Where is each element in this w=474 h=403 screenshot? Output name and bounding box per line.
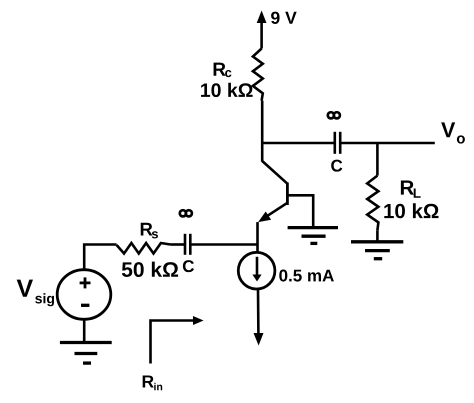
label Rin: [143, 375, 163, 390]
label 9 V: [271, 12, 297, 24]
voltage source Vsig: [57, 270, 111, 320]
value label 0.5 mA: [279, 270, 334, 282]
arrow Rin (input resistance): [151, 316, 204, 364]
wire input cap to emitter node: [190, 243, 257, 246]
label Rc: [214, 63, 232, 78]
infinity label (output cap): [328, 112, 340, 118]
value label 50 kOhm: [122, 262, 178, 277]
capacitor C (output coupling): [335, 132, 340, 154]
label C (output cap): [331, 160, 342, 172]
transistor Q1 emitter with arrow: [258, 203, 287, 222]
wire collector column: [261, 101, 264, 162]
wire base to ground: [287, 195, 313, 227]
label C (input cap): [183, 260, 194, 272]
wire input from Vsig to Rs: [84, 245, 116, 270]
wire Rs to input cap: [170, 243, 185, 246]
capacitor C (input coupling): [185, 234, 190, 255]
wire RL to ground: [376, 230, 379, 242]
wire collector node to output cap: [262, 142, 335, 145]
wire emitter column: [256, 222, 259, 252]
value label 10 kOhm (RL): [384, 203, 438, 218]
power supply arrow 9V: [257, 11, 267, 49]
transistor Q1 collector lead: [262, 161, 287, 184]
infinity label (input cap): [180, 210, 192, 216]
label Rs: [141, 223, 158, 239]
label Vsig: [17, 280, 54, 307]
transistor Q1 base bar: [286, 183, 289, 206]
value label 10 kOhm (Rc): [201, 83, 253, 97]
wire cap to Vo: [340, 142, 435, 145]
ground (base): [288, 228, 338, 244]
wire RL branch: [376, 143, 379, 176]
resistor Rs: [117, 243, 171, 254]
resistor RL: [367, 176, 378, 231]
label RL: [401, 181, 421, 198]
current source I1: [238, 252, 275, 289]
ground (Vsig): [60, 343, 112, 364]
ground (RL): [351, 242, 403, 259]
resistor Rc: [253, 49, 263, 101]
label Vo: [441, 122, 465, 143]
arrow to negative supply: [254, 289, 264, 345]
wire Vsig to ground: [83, 319, 86, 342]
